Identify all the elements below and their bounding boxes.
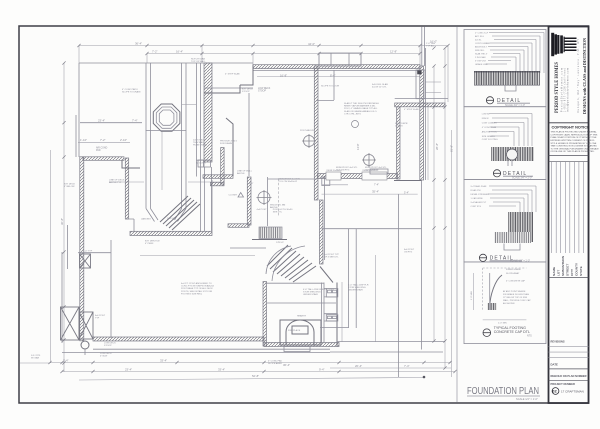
- svg-text:TOP OF WALL: TOP OF WALL: [191, 60, 206, 63]
- svg-text:SCALE 1/4" = 1'-0": SCALE 1/4" = 1'-0": [516, 397, 538, 401]
- right dimension line 2: [444, 48, 446, 368]
- svg-text:PERIOD STYLE HOMES: PERIOD STYLE HOMES: [555, 62, 560, 113]
- svg-text:STATE: STATE: [579, 266, 583, 276]
- svg-text:EXPRESS WRITTEN CONSENT OF PER: EXPRESS WRITTEN CONSENT OF PERIOD: [551, 140, 595, 142]
- separator lines: [549, 155, 589, 157]
- svg-text:FIN GRADE IS LESS THAN: FIN GRADE IS LESS THAN: [503, 293, 529, 296]
- svg-text:12" BELOW TOP OF FDN: 12" BELOW TOP OF FDN: [503, 297, 528, 299]
- svg-text:SCALE 3/4" = 1'-0": SCALE 3/4" = 1'-0": [505, 104, 525, 107]
- svg-text:CONT FOOTING: CONT FOOTING: [482, 139, 498, 141]
- svg-text:STYLE HOMES IS PROHIBITED BY L: STYLE HOMES IS PROHIBITED BY LAW. ONE: [551, 142, 597, 145]
- box1 detail title circle: [486, 97, 493, 104]
- svg-text:LINE OF WALL: LINE OF WALL: [237, 170, 253, 173]
- title block frame: [549, 27, 589, 404]
- slab note paragraph: [344, 102, 379, 115]
- dim line y76: [257, 76, 420, 78]
- svg-text:COUNTY: COUNTY: [575, 262, 579, 276]
- svg-text:TIME CONSTRUCTION LICENSE IS G: TIME CONSTRUCTION LICENSE IS GRANTED: [551, 145, 598, 148]
- svg-text:NOTCH SLAB: NOTCH SLAB: [196, 159, 211, 162]
- dimension tick marks: [48, 44, 456, 373]
- box3 baluster hatch block: [508, 212, 533, 242]
- bottom wall lower line: [93, 348, 330, 350]
- svg-text:81'-8": 81'-8": [450, 145, 454, 152]
- svg-text:16R UP: 16R UP: [167, 218, 175, 220]
- svg-text:POSTS, SEE DETAIL 3/17 FOR: POSTS, SEE DETAIL 3/17 FOR: [181, 290, 213, 293]
- bottom dimension line 2: [62, 371, 455, 373]
- svg-text:4" CONC PATIO: 4" CONC PATIO: [122, 88, 138, 91]
- info labels vertical: [552, 255, 583, 276]
- footing pad B: [362, 172, 387, 180]
- wall y225 center (hatched band): [228, 224, 249, 228]
- dim riser x147: [146, 54, 148, 64]
- svg-text:LOW SL: LOW SL: [482, 113, 491, 115]
- svg-text:4" STEP SLAB: 4" STEP SLAB: [404, 108, 419, 111]
- svg-text:36'-8": 36'-8": [60, 218, 64, 225]
- svg-text:CLOSET: CLOSET: [229, 195, 238, 197]
- svg-text:ROAD PSI: ROAD PSI: [471, 189, 481, 192]
- svg-text:STOOP: STOOP: [258, 91, 266, 93]
- svg-text:FDN W: FDN W: [482, 118, 489, 120]
- dim y182 left: [109, 181, 144, 183]
- dim y185: [322, 184, 349, 186]
- corridor wall line A: [196, 63, 198, 177]
- top wall inner line: [253, 70, 420, 72]
- svg-text:SUBDIVISION: SUBDIVISION: [561, 255, 565, 276]
- svg-text:44'-0": 44'-0": [308, 42, 315, 46]
- svg-text:4" BLW: 4" BLW: [100, 356, 108, 358]
- dim riser x319: [318, 54, 320, 67]
- kitchen line y179: [268, 178, 318, 180]
- column circle right: [362, 153, 376, 167]
- dim x375: [375, 255, 377, 342]
- fireplace room right wall: [336, 283, 338, 347]
- svg-text:AT DOOR: AT DOOR: [196, 162, 206, 165]
- box3 detail title circle: [479, 254, 486, 261]
- svg-text:CONCRETE CAP DTL: CONCRETE CAP DTL: [494, 330, 530, 334]
- svg-text:CONC FTG W/ SIMPSON ABU44: CONC FTG W/ SIMPSON ABU44: [181, 285, 215, 288]
- interior wall x321 lower (hatched band): [320, 200, 324, 264]
- box3 footing hatch band: [494, 232, 531, 243]
- svg-text:ANCH BLT 6'OC: ANCH BLT 6'OC: [482, 130, 498, 133]
- stoop steps: [331, 53, 349, 66]
- exterior wall left upper (hatched band): [83, 157, 124, 161]
- box4 dim line left: [472, 273, 474, 310]
- svg-text:TYP ALL: TYP ALL: [426, 45, 435, 48]
- svg-text:SLOPE TO DRAIN: SLOPE TO DRAIN: [122, 91, 141, 94]
- bottom dimension line: [50, 362, 451, 364]
- wall y176 center (hatched band): [203, 175, 233, 179]
- svg-text:7'-2": 7'-2": [100, 138, 106, 142]
- svg-text:4" CONCRETE CAP: 4" CONCRETE CAP: [506, 280, 526, 283]
- pilaster right top: [417, 70, 421, 74]
- detail box 1 frame: [464, 30, 546, 107]
- top dimension line: [79, 45, 448, 47]
- svg-text:WALL, PROVIDE CONC CAP: WALL, PROVIDE CONC CAP: [503, 299, 531, 302]
- corridor junction boxes: [198, 160, 204, 167]
- svg-text:ABOVE TYP: ABOVE TYP: [109, 181, 122, 184]
- dim riser x202: [201, 46, 203, 64]
- box2 leader lines: [489, 114, 532, 147]
- dim ticks right top: [425, 81, 441, 83]
- wall right y228: [322, 228, 422, 230]
- svg-text:14'-8": 14'-8": [356, 143, 360, 150]
- wall bottom right y352: [330, 351, 443, 353]
- svg-text:4" PERF: 4" PERF: [145, 243, 154, 245]
- closet wall lines: [322, 283, 325, 343]
- svg-text:CTR CTRL JNTS: CTR CTRL JNTS: [344, 113, 361, 115]
- svg-text:2x4 NAILER PLT: 2x4 NAILER PLT: [471, 201, 487, 204]
- interior wall y290: [265, 282, 324, 284]
- pier circle: [81, 341, 89, 349]
- svg-text:TYP: TYP: [95, 318, 100, 320]
- separator below labels: [549, 277, 589, 279]
- svg-text:COL ON FTG: COL ON FTG: [365, 169, 379, 171]
- svg-text:ABOVE: ABOVE: [270, 206, 278, 209]
- dim riser x448: [447, 46, 449, 103]
- dim line left room: [78, 141, 130, 143]
- dashed post line: [278, 179, 280, 218]
- svg-text:17 CRAFTSMAN: 17 CRAFTSMAN: [561, 389, 584, 393]
- exterior wall left vertical (hatched band): [80, 157, 84, 341]
- svg-text:COPYRIGHT LAWS. REPRODUCTION O: COPYRIGHT LAWS. REPRODUCTION OF THIS: [551, 133, 598, 136]
- svg-text:2 IN FOAM: 2 IN FOAM: [475, 56, 486, 59]
- stairs lower center diagonal treads: [267, 245, 316, 282]
- svg-text:FOOTING SIZE REQ: FOOTING SIZE REQ: [181, 293, 202, 295]
- dim riser x361: [360, 54, 362, 67]
- triangle marker: [238, 193, 244, 198]
- left dimension line: [63, 63, 65, 372]
- svg-text:3'-4": 3'-4": [63, 358, 69, 362]
- interior wall x334: [333, 70, 335, 100]
- svg-text:REINF, VAPOR BARRIER 6 MIL: REINF, VAPOR BARRIER 6 MIL: [344, 105, 376, 108]
- svg-text:PROJECT NUMBER: PROJECT NUMBER: [551, 382, 575, 386]
- svg-text:4x6 SL: 4x6 SL: [475, 39, 482, 41]
- box3 leader lines: [488, 186, 536, 212]
- wall x324 parallel: [324, 176, 326, 260]
- svg-text:4'-0" TALL 42SF FLR: 4'-0" TALL 42SF FLR: [348, 284, 369, 287]
- svg-text:33'-4": 33'-4": [218, 367, 225, 371]
- stair room right wall: [211, 180, 213, 231]
- svg-text:SLAB 4" THK 3000 PSI FBR MESH: SLAB 4" THK 3000 PSI FBR MESH: [344, 102, 379, 105]
- svg-text:AT ANY POINT WHERE: AT ANY POINT WHERE: [503, 290, 526, 293]
- box4 bottom dim: [483, 319, 527, 321]
- stair landing box: [259, 227, 282, 239]
- right room bottom wall (hatched band): [318, 174, 398, 179]
- wall top center connect: [204, 87, 253, 89]
- interior wall x231 with diagonal: [226, 118, 233, 176]
- box4 grade curve: [490, 275, 502, 307]
- wall jog: [122, 160, 140, 168]
- column circle with cross: [302, 134, 316, 148]
- octagon inner ring: [159, 110, 174, 125]
- svg-text:CONT LUMBER: CONT LUMBER: [482, 122, 498, 124]
- dim riser x79: [78, 46, 80, 64]
- octagon middle ring: [156, 107, 177, 128]
- svg-text:36'-4": 36'-4": [135, 41, 142, 45]
- slab detail circle: [352, 121, 359, 128]
- pier X-box B: [79, 312, 93, 339]
- revision rule lines: [549, 346, 589, 348]
- octagon pedestal line: [146, 130, 187, 132]
- svg-text:16'-8": 16'-8": [280, 74, 287, 78]
- svg-text:NOTCH SLAB: NOTCH SLAB: [191, 58, 206, 61]
- detail box 4 frame: [464, 262, 546, 344]
- logo column capital (rotated): [551, 33, 576, 56]
- svg-text:STOOP: STOOP: [242, 91, 250, 93]
- porch edge left: [61, 252, 63, 343]
- svg-text:SLAB ON GRADE AREAS U.N.O.: SLAB ON GRADE AREAS U.N.O.: [344, 110, 377, 113]
- svg-text:33'-4": 33'-4": [160, 358, 167, 362]
- fireplace structure: [280, 320, 321, 345]
- box4 footing section dark: [488, 303, 497, 310]
- svg-text:FOR DRAIN: FOR DRAIN: [220, 142, 232, 145]
- svg-text:CONT FTG: CONT FTG: [471, 206, 482, 208]
- svg-text:4" CONC PAD: 4" CONC PAD: [268, 360, 282, 363]
- box1 leader lines: [486, 33, 544, 74]
- pier X-box C (mid-left): [80, 254, 91, 268]
- wall right y107 (hatched band): [395, 103, 445, 107]
- right inner dim: [427, 103, 429, 180]
- wall left jog top: [204, 65, 253, 93]
- svg-text:2" CONC S+F: 2" CONC S+F: [475, 32, 489, 34]
- svg-text:POST BASE TYP OF ALL DECK: POST BASE TYP OF ALL DECK: [181, 287, 213, 290]
- bay chamfer diagonals: [146, 209, 186, 222]
- svg-text:DATE: DATE: [551, 363, 559, 367]
- stair room bottom wall (hatched band): [130, 231, 212, 235]
- svg-text:UNDER STAIR: UNDER STAIR: [348, 289, 363, 292]
- svg-text:FOUNDATION PLAN: FOUNDATION PLAN: [467, 386, 539, 397]
- box3 leader stub texts: [471, 185, 490, 208]
- detail box 3 frame: [464, 180, 546, 262]
- column circle center: [257, 190, 272, 205]
- svg-text:36'-4": 36'-4": [283, 363, 290, 367]
- svg-text:7'-4": 7'-4": [374, 184, 379, 187]
- svg-text:CITY: CITY: [570, 268, 574, 276]
- box4 leader stub texts: [471, 268, 531, 325]
- svg-text:COL ON FTG: COL ON FTG: [336, 169, 350, 171]
- closet line y327: [320, 327, 349, 329]
- svg-text:3" EXP JNT: 3" EXP JNT: [475, 60, 487, 62]
- svg-text:FINISH GRADE: FINISH GRADE: [506, 268, 521, 271]
- svg-text:AS SHOWN: AS SHOWN: [503, 302, 515, 305]
- svg-text:STREET: STREET: [566, 264, 570, 276]
- dim right bottom y368: [330, 367, 451, 369]
- svg-text:4'-6" TALL 42SF FLR TO CLNG: 4'-6" TALL 42SF FLR TO CLNG: [303, 288, 334, 291]
- svg-text:16'-4": 16'-4": [176, 49, 183, 53]
- svg-text:4x4 POST: 4x4 POST: [257, 209, 268, 211]
- underline: [467, 395, 540, 397]
- right wall lower single: [421, 180, 423, 350]
- dim riser x253: [252, 54, 254, 67]
- wall y248: [230, 247, 266, 249]
- svg-text:SIZE SILL: SIZE SILL: [475, 50, 485, 52]
- right dimension line 3: [451, 130, 453, 377]
- line x267: [267, 177, 269, 226]
- svg-text:23'-4": 23'-4": [98, 119, 105, 123]
- box2 hatched section: [491, 147, 534, 161]
- shelf connector lines: [324, 289, 338, 322]
- svg-text:DETAIL STRINGER: DETAIL STRINGER: [471, 193, 490, 196]
- svg-text:1'-10": 1'-10": [80, 138, 87, 142]
- svg-text:SLOPE AWAY: SLOPE AWAY: [268, 362, 282, 365]
- deck edge top-left: [79, 63, 253, 157]
- 4x raft tails paragraph: [181, 282, 215, 295]
- svg-text:7'-4": 7'-4": [404, 364, 410, 368]
- wall y100 connect: [316, 100, 334, 102]
- svg-text:1 CAR WIDE: 1 CAR WIDE: [471, 197, 484, 200]
- main right exterior wall (hatched band): [420, 66, 424, 180]
- svg-text:4" STEP SLAB: 4" STEP SLAB: [225, 73, 240, 76]
- svg-text:TO THE ORIGINAL PURCHASER ONLY: TO THE ORIGINAL PURCHASER ONLY. RESALE: [551, 147, 600, 150]
- shelf box lower: [326, 315, 338, 321]
- svg-text:COL ON 30x30x12: COL ON 30x30x12: [279, 181, 298, 183]
- svg-text:5'-4": 5'-4": [404, 192, 409, 195]
- svg-text:02: 02: [552, 389, 557, 394]
- svg-text:NAME: NAME: [552, 267, 556, 276]
- svg-text:SLOPE TO DOOR: SLOPE TO DOOR: [321, 86, 339, 88]
- svg-text:2'-0" MIN: 2'-0" MIN: [471, 291, 473, 300]
- built-in verticals: [348, 229, 350, 328]
- box4 vertical wall line: [489, 273, 491, 310]
- svg-text:PLMB CHASE: PLMB CHASE: [193, 144, 208, 147]
- svg-text:SCALE 1/2" = 1'-0": SCALE 1/2" = 1'-0": [510, 259, 530, 262]
- svg-text:UNDER STAIR: UNDER STAIR: [303, 293, 318, 296]
- wall y184 (hatched band): [211, 182, 225, 186]
- junction boxes at x322: [322, 177, 330, 186]
- storage room right wall (hatched band): [125, 158, 128, 219]
- wall right y180: [394, 180, 422, 182]
- angled wall lower right: [320, 267, 333, 283]
- right wall upper reference lines: [422, 27, 425, 67]
- svg-text:7'-4": 7'-4": [132, 119, 138, 123]
- box4 dashed footing outline: [483, 268, 527, 310]
- svg-text:SLOPE AWAY: SLOPE AWAY: [506, 272, 520, 275]
- dim riser x420: [419, 46, 421, 67]
- svg-text:LANDING: LANDING: [141, 218, 151, 221]
- wall x76 left room: [75, 115, 77, 157]
- svg-text:DESIGNS with CLASS and DISTINC: DESIGNS with CLASS and DISTINCTION: [583, 38, 587, 114]
- box2 circle in section: [507, 149, 518, 160]
- svg-text:8'-4": 8'-4": [330, 74, 336, 78]
- fireplace room left wall (hatched band): [263, 282, 267, 347]
- interior wall y303: [267, 302, 336, 304]
- svg-text:4x4 W 12" DTL: 4x4 W 12" DTL: [372, 87, 388, 89]
- svg-text:HEARTH: HEARTH: [297, 315, 306, 318]
- svg-text:OR RE-USE OF THIS PLAN IS PROH: OR RE-USE OF THIS PLAN IS PROHIBITED.: [551, 150, 595, 153]
- interior wall vertical x111: [110, 240, 112, 338]
- curved stair arc: [266, 246, 291, 274]
- svg-text:Dunquin, WA "Bay" Lawrence, P: Dunquin, WA "Bay" Lawrence, P.M., WY: [577, 39, 580, 113]
- svg-text:17R UP: 17R UP: [276, 242, 284, 244]
- box2 leader stub texts: [482, 113, 498, 141]
- pier circle stem: [84, 349, 86, 355]
- svg-text:1-800-677-7126 (toll-free): 1-800-677-7126 (toll-free): [563, 68, 566, 112]
- svg-text:6x16 B.B. SLAB: 6x16 B.B. SLAB: [372, 83, 388, 86]
- wall bottom right y342: [337, 341, 445, 343]
- pier X-box A: [61, 307, 80, 340]
- box1 hatched wall section: [474, 71, 540, 86]
- svg-text:PAD: PAD: [96, 149, 101, 152]
- shelf box upper: [326, 289, 338, 297]
- corridor hatched band: [204, 63, 212, 162]
- footing pad A: [326, 172, 341, 180]
- svg-text:8'-0": 8'-0": [249, 183, 254, 185]
- svg-text:ABOVE: ABOVE: [237, 172, 245, 175]
- svg-text:2'-10": 2'-10": [120, 138, 127, 142]
- break line y255: [140, 255, 255, 257]
- left dimension line 2: [50, 150, 52, 363]
- stair diagonal treads: [160, 196, 200, 230]
- box2 detail title circle: [493, 170, 500, 177]
- dim y182 right: [188, 181, 220, 183]
- svg-text:POLY, 4" GRAVEL BASE TYP ALL: POLY, 4" GRAVEL BASE TYP ALL: [344, 107, 378, 110]
- svg-text:CONT LUMBER: CONT LUMBER: [475, 43, 491, 45]
- main top exterior wall (hatched band): [253, 65, 420, 69]
- svg-text:7'-2": 7'-2": [152, 49, 158, 53]
- svg-text:4" BELOW: 4" BELOW: [64, 186, 75, 188]
- svg-text:SIZE GRAVEL: SIZE GRAVEL: [482, 135, 496, 138]
- dim x342: [341, 282, 343, 342]
- svg-text:POST ABOVE: POST ABOVE: [300, 129, 314, 132]
- dinette bay side walls: [146, 63, 186, 209]
- svg-text:12'-8": 12'-8": [390, 49, 397, 53]
- bay inner dim: [161, 132, 163, 191]
- right room right wall (hatched band): [397, 107, 400, 179]
- svg-text:2x TREAD PLAN: 2x TREAD PLAN: [471, 185, 487, 188]
- box1 leader stub texts: [475, 32, 491, 66]
- svg-text:2'-0" MIN: 2'-0" MIN: [498, 323, 507, 325]
- svg-text:ON FTG: ON FTG: [404, 252, 413, 254]
- corridor wall line B: [200, 63, 202, 231]
- svg-text:APC FILL: APC FILL: [475, 35, 485, 38]
- small rect right: [370, 169, 388, 174]
- interior vertical x249 upper: [248, 93, 250, 176]
- svg-text:COPYRIGHT NOTICE: COPYRIGHT NOTICE: [552, 125, 590, 129]
- svg-text:FIREPLACE: FIREPLACE: [288, 329, 301, 332]
- dim y194: [322, 193, 418, 195]
- plan/details separator: [456, 27, 458, 403]
- interior line left room: [67, 225, 69, 269]
- right dimension line: [433, 66, 435, 341]
- wall x249 lower (hatched band): [247, 177, 251, 225]
- interior wall x316 (hatched band): [314, 66, 318, 200]
- svg-text:GRADE LINE: GRADE LINE: [475, 63, 488, 66]
- svg-text:4x4 P.T. POST ANCHORED TO: 4x4 P.T. POST ANCHORED TO: [181, 282, 212, 285]
- wall y239: [252, 239, 287, 241]
- wall right x399 vertical: [398, 194, 400, 377]
- stair arc 2: [272, 246, 305, 281]
- detail box 2 frame: [464, 107, 546, 180]
- svg-text:35'-4": 35'-4": [372, 190, 379, 194]
- svg-text:28'-8": 28'-8": [435, 143, 439, 150]
- fireplace room bottom wall (hatched band): [264, 343, 339, 347]
- box3 marks below: [504, 244, 520, 251]
- hearth rect: [284, 347, 310, 352]
- svg-text:PLAN OR ANY PORTION OF IT WITH: PLAN OR ANY PORTION OF IT WITHOUT THE: [551, 136, 598, 139]
- wall x222 (hatched band): [221, 148, 224, 185]
- octagon outer: [153, 104, 180, 131]
- svg-text:AIR COND: AIR COND: [96, 147, 108, 150]
- wall top-left room top: [80, 122, 142, 124]
- svg-text:9'-4": 9'-4": [319, 367, 325, 371]
- svg-text:STOOP: STOOP: [104, 345, 112, 347]
- dim end dot: [423, 376, 426, 379]
- right wall second line: [425, 48, 427, 180]
- copyright paragraph: [551, 131, 600, 154]
- corridor lower thin lines: [205, 167, 212, 231]
- project number value: [552, 388, 584, 395]
- svg-text:info@periodstylehomes.com: info@periodstylehomes.com: [566, 68, 569, 112]
